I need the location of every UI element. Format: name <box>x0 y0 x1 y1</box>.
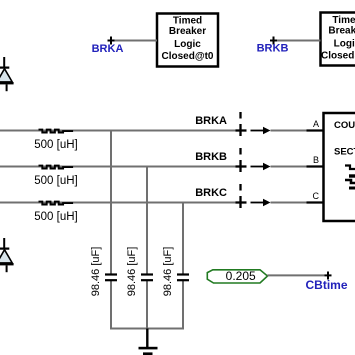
wire breaker C to block <box>271 202 308 204</box>
inductor L2 <box>39 166 74 169</box>
arrow into pin A <box>251 127 271 134</box>
svg-text:C: C <box>313 191 320 201</box>
inductor L1 <box>39 130 74 133</box>
breaker BRKA symbol <box>236 112 247 136</box>
svg-text:0.205: 0.205 <box>226 269 256 283</box>
svg-text:BRKA: BRKA <box>92 43 124 55</box>
breaker BRKB symbol <box>236 148 247 172</box>
svg-text:BRKA: BRKA <box>195 115 227 127</box>
timed breaker logic block U1 <box>157 14 218 67</box>
svg-text:A: A <box>313 119 319 129</box>
inductor L3 <box>39 202 74 205</box>
wire breaker A to block <box>271 130 308 132</box>
branch wire phase B to cap bank <box>146 167 148 329</box>
svg-text:CBtime: CBtime <box>305 278 347 292</box>
wire from U1 to label BRKA <box>114 40 157 42</box>
wire breaker B to block <box>271 166 308 168</box>
wire from U2 to label BRKB <box>277 40 321 42</box>
breaker BRKC symbol <box>236 184 247 208</box>
svg-text:Breaker: Breaker <box>328 26 355 37</box>
data label marker BRKA <box>108 37 115 45</box>
svg-text:98.46 [uF]: 98.46 [uF] <box>126 247 138 297</box>
bus wire <box>110 328 184 330</box>
branch wire phase C to cap bank <box>182 203 184 329</box>
wire phase A <box>0 130 236 132</box>
svg-text:Closed@t0: Closed@t0 <box>321 51 355 62</box>
surge arrester X2 (left edge, clipped) <box>0 238 14 272</box>
svg-text:BRKC: BRKC <box>195 187 227 199</box>
pin stub A <box>307 129 324 131</box>
branch wire phase A to cap bank <box>110 131 112 329</box>
svg-text:Closed@t0: Closed@t0 <box>162 51 214 62</box>
arrow into pin C <box>251 199 271 206</box>
capacitor C3 <box>177 273 189 281</box>
wire lens to label CBtime <box>267 274 324 276</box>
svg-text:B: B <box>313 155 319 165</box>
pin stub C <box>307 201 324 203</box>
svg-text:Timed: Timed <box>332 15 355 26</box>
data label marker CBtime <box>325 272 332 280</box>
svg-text:500 [uH]: 500 [uH] <box>34 139 77 151</box>
data label marker BRKB <box>270 37 277 45</box>
svg-text:98.46 [uF]: 98.46 [uF] <box>90 247 102 297</box>
svg-text:Breaker: Breaker <box>169 26 206 37</box>
wire phase C <box>0 202 236 204</box>
svg-text:Logic: Logic <box>174 39 201 50</box>
svg-text:98.46 [uF]: 98.46 [uF] <box>162 247 174 297</box>
pi section icon (partially visible) <box>345 166 355 170</box>
svg-text:Timed: Timed <box>173 16 202 27</box>
capacitor C1 <box>105 273 117 281</box>
ground <box>139 329 158 355</box>
wire phase B <box>0 166 236 168</box>
svg-text:BRKB: BRKB <box>257 43 289 55</box>
svg-text:500 [uH]: 500 [uH] <box>34 175 77 187</box>
surge arrester X1 (left edge, clipped) <box>0 57 14 91</box>
meter lens 0.205 <box>207 269 267 283</box>
pin stub B <box>307 165 324 167</box>
svg-text:SECTION: SECTION <box>334 147 355 158</box>
coupled pi section block (clipped at right) <box>324 113 355 221</box>
svg-text:COUPLED: COUPLED <box>334 120 355 131</box>
svg-text:BRKB: BRKB <box>195 151 227 163</box>
capacitor C2 <box>141 273 153 281</box>
timed breaker logic block U2 <box>321 13 355 66</box>
svg-text:500 [uH]: 500 [uH] <box>34 211 77 223</box>
arrow into pin B <box>251 163 271 170</box>
svg-text:Logic: Logic <box>334 39 355 50</box>
